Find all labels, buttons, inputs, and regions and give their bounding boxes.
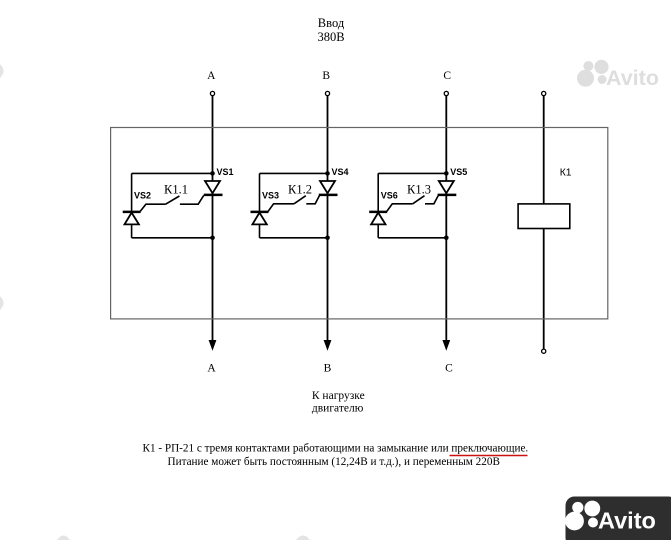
svg-text:К1 - РП-21 с тремя контактами: К1 - РП-21 с тремя контактами работающим… bbox=[143, 443, 529, 455]
avito badge bbox=[565, 497, 671, 540]
wire module C bottom bbox=[378, 237, 446, 239]
svg-text:Питание может быть постоянным: Питание может быть постоянным (12,24В и … bbox=[168, 456, 500, 468]
svg-text:VS6: VS6 bbox=[381, 191, 398, 201]
contact K1.3 bbox=[413, 196, 425, 204]
node B top junction bbox=[325, 171, 330, 176]
enclosure box bbox=[111, 128, 608, 319]
spellcheck underline bbox=[450, 455, 528, 457]
svg-text:A: A bbox=[207, 70, 216, 82]
svg-text:Avito: Avito bbox=[598, 508, 656, 534]
watermark top right bbox=[577, 60, 659, 90]
watermark fragment left lower bbox=[0, 296, 4, 310]
svg-text:К нагрузке: К нагрузке bbox=[312, 390, 365, 402]
terminal K1 bottom bbox=[542, 349, 546, 353]
node B bottom junction bbox=[325, 236, 330, 241]
svg-text:VS1: VS1 bbox=[217, 167, 234, 177]
watermark fragment left upper bbox=[0, 64, 4, 78]
node C bottom junction bbox=[444, 236, 449, 241]
svg-text:VS3: VS3 bbox=[262, 191, 279, 201]
svg-text:C: C bbox=[443, 70, 451, 82]
watermark fragment bottom center bbox=[296, 536, 310, 540]
svg-text:C: C bbox=[445, 363, 453, 375]
svg-text:К1.1: К1.1 bbox=[164, 182, 188, 196]
wire module B bottom bbox=[260, 237, 328, 239]
wire phase B vertical bbox=[327, 96, 329, 342]
wire module B top bbox=[260, 172, 328, 174]
wire module C top bbox=[378, 172, 446, 174]
arrow phase C bbox=[442, 340, 450, 351]
node A top junction bbox=[210, 171, 215, 176]
wire K1 coil vertical bbox=[543, 96, 545, 349]
watermark fragment bottom left bbox=[57, 536, 70, 540]
thyristor VS4 bbox=[306, 181, 337, 204]
svg-text:К1: К1 bbox=[560, 168, 572, 179]
svg-text:VS5: VS5 bbox=[450, 167, 467, 177]
svg-text:Ввод: Ввод bbox=[318, 16, 345, 30]
terminal A top bbox=[210, 91, 214, 95]
thyristor VS2 bbox=[123, 204, 166, 224]
terminal B top bbox=[325, 91, 329, 95]
wire module A left vertical bbox=[131, 173, 133, 237]
wire phase C vertical bbox=[445, 96, 447, 342]
svg-text:380В: 380В bbox=[317, 30, 344, 44]
svg-text:VS2: VS2 bbox=[134, 191, 151, 201]
svg-text:VS4: VS4 bbox=[332, 167, 349, 177]
relay coil K1 bbox=[518, 204, 570, 229]
thyristor VS5 bbox=[425, 181, 456, 204]
title Ввод 380В bbox=[317, 16, 344, 44]
node C top junction bbox=[444, 171, 449, 176]
wire module A bottom bbox=[132, 237, 213, 239]
thyristor VS6 bbox=[369, 204, 413, 225]
wire module B left vertical bbox=[259, 173, 261, 237]
thyristor VS3 bbox=[251, 204, 295, 225]
svg-text:A: A bbox=[207, 363, 216, 375]
svg-text:Avito: Avito bbox=[606, 66, 659, 90]
load caption bbox=[312, 390, 365, 414]
svg-text:B: B bbox=[322, 70, 330, 82]
terminal K1 top bbox=[542, 91, 546, 95]
contact K1.1 bbox=[166, 196, 180, 204]
node A bottom junction bbox=[210, 236, 215, 241]
svg-text:К1.3: К1.3 bbox=[407, 182, 431, 196]
svg-text:К1.2: К1.2 bbox=[288, 182, 312, 196]
svg-text:B: B bbox=[324, 363, 332, 375]
wire phase A vertical bbox=[212, 96, 214, 342]
svg-text:двигателю: двигателю bbox=[312, 403, 364, 415]
terminal C top bbox=[444, 91, 448, 95]
thyristor VS1 bbox=[180, 181, 223, 204]
wire module A top bbox=[132, 172, 213, 174]
wire module C left vertical bbox=[377, 173, 379, 237]
arrow phase A bbox=[209, 340, 217, 351]
arrow phase B bbox=[324, 340, 332, 351]
contact K1.2 bbox=[294, 196, 306, 204]
